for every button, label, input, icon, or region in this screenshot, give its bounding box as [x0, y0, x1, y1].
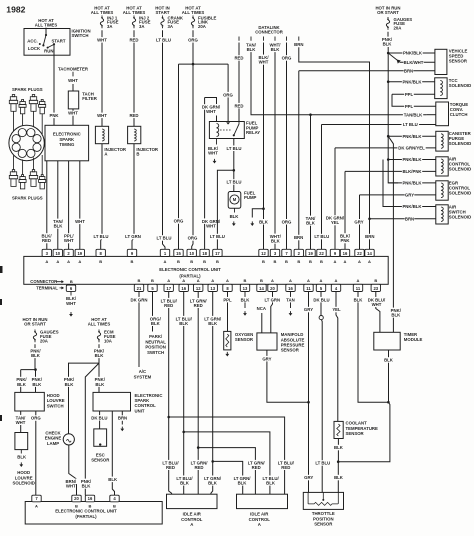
svg-text:BRN: BRN	[405, 217, 414, 222]
svg-text:RED: RED	[281, 465, 290, 470]
svg-text:PNK/BLK: PNK/BLK	[402, 79, 422, 84]
svg-text:FILTER: FILTER	[82, 96, 98, 101]
ECM terminal 10A row1	[53, 249, 62, 256]
svg-text:WHT: WHT	[64, 238, 74, 243]
ECM terminal 14B row2	[257, 284, 266, 291]
svg-text:SOLENOID: SOLENOID	[449, 83, 471, 88]
ECM terminal 4A row2	[331, 284, 340, 291]
svg-text:BLK: BLK	[266, 481, 276, 486]
wire ignition feed	[45, 28, 47, 35]
svg-text:10: 10	[55, 251, 60, 256]
svg-text:RED: RED	[129, 38, 138, 43]
fuse ECM 10A	[97, 330, 100, 343]
node PNK/BLK TCC	[387, 80, 390, 83]
svg-text:LT BLU: LT BLU	[315, 461, 330, 466]
svg-text:BLK: BLK	[334, 475, 344, 480]
svg-text:16: 16	[343, 251, 348, 256]
svg-text:BLK: BLK	[208, 321, 218, 326]
fuel pump relay	[209, 122, 244, 139]
wire ORG datalink to ECM 7B	[286, 43, 288, 250]
svg-text:18: 18	[202, 251, 207, 256]
wire LT GRN/BLK to idle air B pin1	[213, 461, 243, 494]
svg-text:B: B	[309, 259, 312, 264]
wire BRN VSS pin	[404, 68, 414, 74]
svg-text:12: 12	[196, 286, 201, 291]
svg-text:PNK/BLK: PNK/BLK	[402, 134, 422, 139]
wire splice to ground	[252, 209, 263, 218]
wire BRN air switch	[370, 218, 436, 220]
svg-text:20A: 20A	[198, 24, 206, 29]
wire TAN/BLK to torque conv clutch	[403, 112, 423, 118]
manifold absolute pressure sensor	[257, 333, 277, 350]
svg-text:A: A	[56, 259, 59, 264]
node BLK/WHT ground splice	[262, 207, 265, 210]
svg-text:BLK: BLK	[17, 382, 27, 387]
coolant temperature sensor	[334, 421, 343, 438]
svg-text:START: START	[51, 38, 65, 43]
svg-text:LT GRN: LT GRN	[264, 297, 280, 302]
ECM terminal 8A row2	[223, 284, 232, 291]
svg-text:A: A	[258, 522, 261, 527]
wire PNK/BLK into ESC unit	[98, 363, 100, 392]
svg-text:A: A	[344, 259, 347, 264]
wire PNK/BLK canister purge	[388, 135, 436, 137]
svg-text:LT BLU: LT BLU	[210, 234, 225, 239]
svg-text:RUN: RUN	[44, 48, 53, 53]
svg-text:BLK: BLK	[65, 382, 75, 387]
svg-text:SYSTEM: SYSTEM	[134, 374, 152, 379]
svg-text:BLK: BLK	[241, 297, 251, 302]
svg-text:A: A	[335, 278, 338, 283]
svg-text:RED: RED	[164, 303, 173, 308]
svg-text:GRY: GRY	[262, 356, 271, 361]
wire LT BLU to ECM 17B	[217, 170, 233, 249]
svg-text:BLK: BLK	[151, 321, 161, 326]
svg-text:A: A	[164, 259, 167, 264]
svg-text:PNK/BLK: PNK/BLK	[403, 51, 423, 56]
node LT GRN/RED junction	[197, 446, 200, 449]
svg-text:B: B	[274, 259, 277, 264]
svg-text:3A: 3A	[139, 24, 145, 29]
svg-text:MODULE: MODULE	[404, 337, 423, 342]
svg-text:A: A	[320, 278, 323, 283]
wire DK GRN/YEL canister to ECM 9A	[335, 148, 436, 249]
svg-text:SWITCH: SWITCH	[147, 350, 164, 355]
svg-text:22: 22	[319, 251, 324, 256]
svg-text:A: A	[226, 278, 229, 283]
svg-text:SOLENOID: SOLENOID	[449, 167, 471, 172]
svg-text:12: 12	[261, 251, 266, 256]
wire PNK/BLK air switch	[383, 206, 436, 208]
svg-text:WHT: WHT	[206, 223, 216, 228]
svg-text:TAN/BLK: TAN/BLK	[404, 112, 423, 117]
svg-text:10: 10	[189, 251, 194, 256]
svg-text:BRN: BRN	[118, 416, 127, 421]
wire LT GRN/BLK ECM 13A to idle air controls	[211, 292, 213, 495]
svg-text:BLK/WHT: BLK/WHT	[404, 60, 424, 65]
svg-text:BLK/PNK: BLK/PNK	[402, 169, 422, 174]
svg-text:CONNECTOR: CONNECTOR	[255, 29, 284, 34]
wire ORG to fuel pump relay	[227, 64, 229, 121]
svg-text:A: A	[211, 278, 214, 283]
ECM terminal 20A row2	[268, 284, 277, 291]
ECM terminal 21B row2	[134, 284, 143, 291]
svg-text:CLUTCH: CLUTCH	[450, 112, 468, 117]
svg-text:B: B	[262, 259, 265, 264]
electronic control unit (partial) bottom	[25, 502, 162, 525]
svg-text:BLK: BLK	[82, 484, 92, 489]
node ORG junction	[192, 63, 195, 66]
wire PNK/BLK hood louvre feed	[34, 344, 36, 369]
svg-text:WHT: WHT	[372, 302, 382, 307]
svg-text:TAN: TAN	[286, 297, 295, 302]
svg-text:RED: RED	[194, 303, 203, 308]
svg-text:BLK: BLK	[334, 445, 344, 450]
svg-text:LT BLU: LT BLU	[227, 146, 242, 151]
fusible link 20A	[191, 16, 194, 29]
svg-text:WHT: WHT	[97, 38, 107, 43]
inline connector symbol	[319, 316, 323, 320]
svg-text:PNK: PNK	[340, 238, 350, 243]
svg-text:B: B	[285, 259, 288, 264]
ECM terminal 22B row1	[317, 249, 326, 256]
ECM terminal 8B row1	[96, 249, 105, 256]
ECM terminal 17A row2	[164, 284, 173, 291]
svg-text:YEL: YEL	[332, 307, 341, 312]
svg-text:BLK: BLK	[271, 47, 281, 52]
svg-text:WHT: WHT	[259, 60, 269, 65]
injector A	[95, 126, 108, 143]
scan edge artifacts	[0, 266, 3, 273]
ECM bottom terminal 16B	[85, 495, 94, 502]
node LT BLU/BLK junction	[182, 431, 185, 434]
svg-text:14: 14	[259, 286, 264, 291]
wire PPL bracket	[392, 94, 436, 106]
wire PNK/BLK to ESC unit and ECM 16B bottom	[85, 363, 99, 495]
svg-text:B: B	[75, 504, 78, 509]
wire PNK/BLK air control	[388, 159, 436, 161]
wire BLK coolant sensor to TPS	[337, 439, 339, 493]
air switch solenoid	[436, 205, 448, 224]
svg-text:PPL: PPL	[223, 297, 232, 302]
svg-text:SOLENOID: SOLENOID	[449, 141, 471, 146]
svg-text:B: B	[131, 259, 134, 264]
wire LT BLU crank to ECM 1A	[163, 30, 166, 249]
ECM terminal 23B row2	[371, 284, 380, 291]
wire DK BLU/WHT ECM 23B to timer module	[376, 292, 380, 333]
node LT BLU/RED junction	[167, 416, 170, 419]
wire BLK/WHT datalink to ECM 12B	[263, 43, 265, 250]
wire TAN/BLK EST to ECM 10A	[57, 161, 59, 250]
wire BLK timer module	[388, 350, 390, 402]
svg-text:ORG: ORG	[188, 38, 198, 43]
wire PNK/BLK ECM fuse	[98, 344, 100, 363]
wire BLK solenoid ground	[20, 450, 22, 454]
wire BLK/WHT VSS splice	[400, 61, 435, 63]
svg-text:BLK: BLK	[247, 47, 257, 52]
ECM terminal 17B row1	[213, 249, 222, 256]
svg-text:LT BLU: LT BLU	[157, 236, 172, 241]
svg-text:SPARK PLUGS: SPARK PLUGS	[12, 195, 43, 200]
ECM terminal 16A row2	[286, 284, 295, 291]
spark plug 1	[12, 95, 14, 97]
svg-text:PUMP: PUMP	[244, 195, 257, 200]
svg-text:LT BLU: LT BLU	[227, 180, 242, 185]
node GRY junction	[307, 401, 310, 404]
ECM terminal 16A row1	[340, 249, 349, 256]
svg-text:23: 23	[373, 286, 378, 291]
wire PPL/WHT EST to ECM 2A	[68, 161, 70, 250]
svg-text:M: M	[233, 197, 237, 202]
node PNK/BLK air control	[387, 158, 390, 161]
svg-text:SWITCH: SWITCH	[47, 403, 64, 408]
svg-text:WHT: WHT	[66, 484, 76, 489]
egr control solenoid	[436, 181, 448, 200]
node PNK/BLK canister	[387, 135, 390, 138]
svg-text:LOCK: LOCK	[28, 46, 41, 51]
svg-text:LT BLU: LT BLU	[94, 234, 109, 239]
svg-text:20A: 20A	[394, 26, 402, 31]
svg-text:A: A	[104, 151, 107, 156]
svg-text:ELECTRONIC CONTROL UNIT: ELECTRONIC CONTROL UNIT	[159, 267, 221, 272]
svg-text:WHT: WHT	[68, 78, 78, 83]
svg-text:SENSOR: SENSOR	[281, 348, 300, 353]
svg-text:16: 16	[88, 496, 93, 501]
svg-text:PNK: PNK	[49, 113, 59, 118]
svg-text:17: 17	[166, 286, 171, 291]
svg-text:B: B	[260, 278, 263, 283]
hood louvre solenoid	[15, 433, 28, 450]
svg-text:A: A	[289, 278, 292, 283]
svg-text:14: 14	[367, 251, 372, 256]
svg-text:WHT: WHT	[68, 111, 78, 116]
svg-text:GRY: GRY	[354, 219, 363, 224]
air control solenoid	[436, 157, 448, 176]
torque converter clutch	[436, 102, 449, 126]
node BLK junction bottom	[337, 460, 340, 463]
svg-text:BLK: BLK	[230, 214, 240, 219]
svg-text:GRY: GRY	[304, 307, 313, 312]
svg-text:20: 20	[270, 286, 275, 291]
svg-text:GRY: GRY	[405, 193, 414, 198]
svg-text:A: A	[334, 259, 337, 264]
svg-text:19: 19	[308, 251, 313, 256]
svg-text:PNK/BLK: PNK/BLK	[402, 204, 422, 209]
svg-text:SWITCH: SWITCH	[72, 33, 89, 38]
timer module	[374, 332, 400, 350]
svg-text:B: B	[89, 504, 92, 509]
svg-text:13: 13	[210, 286, 215, 291]
svg-text:ELECTRONIC: ELECTRONIC	[53, 132, 81, 137]
injector B	[128, 126, 141, 143]
spark plug 3	[32, 95, 34, 97]
hood louvre switch	[15, 392, 45, 411]
wire PNK/BLK to TCC solenoid	[388, 81, 435, 83]
svg-text:BLK: BLK	[391, 313, 401, 318]
svg-text:SENSOR: SENSOR	[346, 431, 365, 436]
wire ORG to ECM 15B	[178, 64, 180, 249]
fuse INJ 2 3A	[132, 16, 135, 29]
svg-text:BRN: BRN	[294, 235, 303, 240]
svg-text:RED: RED	[129, 113, 138, 118]
node BLK timer junction	[387, 401, 390, 404]
ECM bottom terminal 7A	[32, 495, 41, 502]
spark plug 5	[12, 170, 14, 172]
ECM terminal 10B row1	[187, 249, 196, 256]
svg-text:ORG: ORG	[188, 236, 198, 241]
ECM terminal 2A row1	[64, 249, 73, 256]
svg-text:CONNECTOR: CONNECTOR	[30, 279, 57, 284]
svg-text:(PARTIAL): (PARTIAL)	[75, 514, 97, 519]
wire GRY MAP sensor to TPS	[267, 350, 309, 402]
node TAN/BLK junction to ECM 19B	[309, 113, 312, 116]
wire DK BLU ESC to ESC sensor	[99, 411, 101, 429]
svg-text:BLK: BLK	[259, 219, 269, 224]
svg-text:BLK: BLK	[108, 477, 118, 482]
svg-text:20A: 20A	[40, 338, 48, 343]
wire RED datalink to fuel pump relay	[238, 43, 240, 122]
ECM terminal 9B row1	[127, 249, 136, 256]
wire RED inj2 to injector B	[133, 30, 135, 126]
svg-text:DK GRN/YEL: DK GRN/YEL	[398, 146, 425, 151]
svg-text:SPARK PLUGS: SPARK PLUGS	[12, 87, 43, 92]
ECM terminal 13A row2	[208, 284, 217, 291]
wire DK GRN ECM 21B to A/C system	[138, 292, 140, 368]
svg-text:SOLENOID: SOLENOID	[449, 215, 471, 220]
svg-text:TERMINAL: TERMINAL	[36, 286, 58, 291]
svg-text:GRY: GRY	[304, 475, 313, 480]
wire WHT EST to ECM 19A	[79, 161, 81, 250]
svg-text:RED: RED	[234, 56, 243, 61]
svg-text:A: A	[190, 522, 193, 527]
ECM terminal 15B row1	[174, 249, 183, 256]
svg-text:A: A	[35, 504, 38, 509]
wire BLK/WHT relay to ground	[216, 139, 218, 145]
svg-text:B: B	[297, 259, 300, 264]
wire BLK fuel pump to ground	[234, 208, 236, 212]
svg-text:B: B	[136, 151, 139, 156]
svg-text:17: 17	[215, 251, 220, 256]
svg-text:A: A	[368, 259, 371, 264]
ECM terminal 5B row2	[148, 284, 157, 291]
ECM terminal 12B row1	[259, 249, 268, 256]
wire LT GRN ECM 20A to MAP sensor	[271, 292, 273, 333]
fuse INJ 1 3A	[100, 16, 103, 29]
svg-text:BLK: BLK	[32, 382, 42, 387]
svg-text:B: B	[190, 259, 193, 264]
svg-text:UNIT: UNIT	[135, 408, 145, 413]
svg-text:RELAY: RELAY	[246, 130, 260, 135]
svg-text:LT BLU: LT BLU	[156, 38, 171, 43]
wire LT BLU/BLK to idle air B pin3	[184, 432, 270, 494]
svg-text:BRN: BRN	[365, 234, 374, 239]
wire ORG/BLK ECM 5B to park/neutral switch	[152, 292, 154, 332]
node PNK/BLK VSS	[387, 52, 390, 55]
wire TAN/BLK datalink	[251, 43, 426, 115]
svg-text:BLK: BLK	[54, 224, 64, 229]
svg-text:B: B	[70, 279, 73, 284]
svg-text:13: 13	[243, 286, 248, 291]
svg-text:1982: 1982	[6, 5, 25, 15]
ECM terminal 14A row1	[365, 249, 374, 256]
svg-text:A: A	[67, 259, 70, 264]
svg-text:PNK/BLK: PNK/BLK	[402, 181, 422, 186]
ECM terminal 12A row2	[194, 284, 203, 291]
svg-text:TACHOMETER: TACHOMETER	[58, 66, 89, 71]
svg-text:TIMING: TIMING	[59, 142, 75, 147]
svg-text:WHT: WHT	[206, 109, 216, 114]
esc sensor	[94, 429, 107, 446]
wire PPL TCC solenoid	[392, 93, 435, 95]
wire PNK/BLK to check engine lamp	[69, 363, 100, 434]
svg-text:PNK/BLK: PNK/BLK	[402, 157, 422, 162]
svg-text:21: 21	[137, 286, 142, 291]
svg-text:NCA: NCA	[257, 306, 266, 311]
svg-text:LT BLU: LT BLU	[403, 122, 418, 127]
ECM terminal 22A row1	[355, 249, 364, 256]
svg-text:A: A	[197, 278, 200, 283]
spark plug 4	[41, 100, 43, 102]
ECM terminal 18B row1	[200, 249, 209, 256]
wire BRN/WHT lamp to ECM 20B bottom	[69, 445, 77, 495]
svg-text:SENSOR: SENSOR	[314, 522, 333, 527]
fuse CRANK 3A	[161, 16, 164, 29]
wire GRY ECM 11A to TPS	[308, 292, 310, 493]
svg-text:RED: RED	[42, 238, 51, 243]
wire TAN/WHT switch to solenoid	[20, 411, 22, 433]
ground oxygen sensor	[225, 352, 229, 357]
ECM terminal 3A row1	[42, 249, 51, 256]
wire LT BLU/RED to idle air B pin4	[169, 417, 285, 494]
ECM terminal 2B row1	[294, 249, 303, 256]
svg-text:BLK: BLK	[271, 239, 281, 244]
spark plug 6	[22, 175, 24, 177]
node LT GRN/BLK junction	[211, 460, 214, 463]
ECM terminal 1A row1	[160, 249, 169, 256]
wire PNK/BLK to vehicle speed sensor	[388, 52, 435, 54]
wire BLK ESC to ECM 4B bottom	[112, 411, 114, 495]
svg-text:16: 16	[181, 286, 186, 291]
svg-text:BLK: BLK	[95, 382, 105, 387]
svg-text:YEL: YEL	[331, 220, 340, 225]
wire PNK/BLK air switch bracket	[383, 160, 398, 207]
distributor	[9, 125, 44, 160]
wire BRN datalink to ECM 14A and air switch solenoid	[299, 43, 370, 250]
svg-text:RED: RED	[252, 465, 261, 470]
svg-text:BLK: BLK	[384, 358, 394, 363]
throttle position sensor	[303, 492, 343, 509]
svg-text:SOLENOID: SOLENOID	[449, 191, 471, 196]
wire LT BLU relay to fuel pump	[233, 139, 235, 192]
wire ORG distribution	[179, 63, 229, 65]
svg-text:B: B	[244, 278, 247, 283]
ECM terminal 7B row1	[282, 249, 291, 256]
svg-text:15: 15	[176, 251, 181, 256]
wire DK GRN/WHT relay coil to ECM 18B	[205, 98, 217, 250]
svg-text:16: 16	[288, 286, 293, 291]
spark plug 8	[41, 175, 43, 177]
svg-text:BLK: BLK	[208, 481, 218, 486]
wire YEL ECM 4A to coolant temperature sensor	[336, 292, 338, 422]
svg-text:10A: 10A	[104, 338, 112, 343]
svg-text:A: A	[307, 278, 310, 283]
fuel pump	[228, 192, 241, 209]
svg-text:INJECTOR: INJECTOR	[136, 147, 159, 152]
wire LT BLU/BLK ECM 16A to idle air controls	[183, 292, 185, 495]
spark plug 2	[22, 100, 24, 102]
canister purge solenoid	[436, 131, 448, 151]
wire BLK bus down	[338, 402, 390, 462]
